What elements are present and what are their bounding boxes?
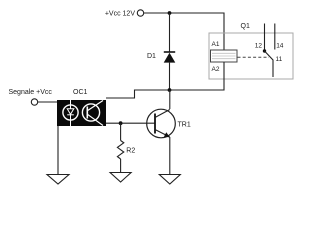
wire R2 top — [120, 123, 122, 140]
optocoupler OC1 — [57, 100, 106, 126]
svg-text:TR1: TR1 — [178, 121, 191, 128]
svg-text:OC1: OC1 — [73, 89, 88, 96]
ground left — [47, 175, 69, 185]
svg-text:A1: A1 — [212, 41, 220, 48]
LED side — [63, 105, 78, 120]
wire top rail from +Vcc to relay coil A1 — [144, 13, 224, 50]
svg-text:+Vcc 12V: +Vcc 12V — [105, 11, 135, 18]
terminal +Vcc 12V — [105, 10, 144, 18]
ground right — [159, 175, 180, 185]
ground middle — [110, 173, 131, 183]
svg-text:12: 12 — [255, 42, 263, 49]
relay coil — [211, 50, 238, 62]
node junction collector / D1 / A2 — [168, 88, 172, 92]
svg-text:11: 11 — [276, 56, 283, 63]
wire OC1 emitter to TR1 base — [106, 122, 155, 124]
svg-text:D1: D1 — [147, 53, 156, 60]
relay Q1 outer box — [209, 33, 293, 79]
svg-text:Q1: Q1 — [241, 23, 250, 30]
wire collector of TR1 up to node — [169, 90, 171, 109]
wire OC1 LED cathode to ground — [57, 126, 59, 175]
dashed mechanical link coil to contact — [238, 56, 270, 58]
svg-text:R2: R2 — [126, 147, 135, 154]
resistor R2 — [117, 141, 135, 160]
svg-text:14: 14 — [276, 43, 284, 50]
diode D1 — [147, 52, 175, 63]
transistor TR1 — [147, 109, 191, 138]
wire D1 anode down to collector node — [169, 63, 171, 90]
node junction top rail / D1 — [168, 11, 172, 15]
relay pole 11 with movable arm — [265, 51, 283, 77]
wire Segnale terminal to OC1 — [38, 101, 57, 103]
relay contact 14 — [275, 24, 284, 50]
terminal Segnale +Vcc — [9, 89, 53, 105]
relay contact 12 — [255, 24, 266, 53]
node junction base / R2 — [119, 121, 123, 125]
wire TR1 emitter to ground — [169, 137, 171, 175]
phototransistor side — [82, 104, 99, 121]
svg-text:A2: A2 — [212, 66, 220, 73]
wire D1 cathode up to top rail — [169, 13, 171, 52]
svg-text:Segnale +Vcc: Segnale +Vcc — [9, 89, 53, 96]
wire R2 bottom to ground — [120, 159, 122, 173]
wire coil A2 down and left to collector node and OC1 pin — [106, 62, 224, 98]
